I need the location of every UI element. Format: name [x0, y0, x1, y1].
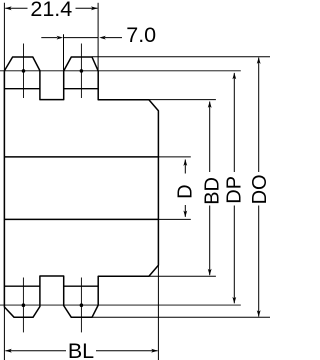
tooth 2 top center dot	[80, 69, 84, 73]
tooth 1 bottom center dot	[22, 303, 26, 307]
left edge extension line	[3, 3, 5, 360]
BD top reference line	[149, 99, 216, 101]
tooth 2 top vertical centerline	[80, 44, 82, 99]
bore bottom line	[4, 218, 158, 220]
rim line bottom right	[64, 285, 98, 287]
DO top reference line	[92, 56, 270, 58]
svg-text:BD: BD	[202, 177, 224, 205]
rim line top left	[4, 88, 40, 90]
svg-text:D: D	[175, 184, 197, 198]
svg-text:21.4: 21.4	[30, 0, 72, 21]
dim BL line right segment with arrow	[96, 350, 158, 352]
tooth 1 bottom vertical centerline	[22, 278, 24, 333]
rim line bottom left	[4, 285, 40, 287]
dim 7.0 left outside arrow	[41, 37, 57, 39]
dim D vertical line top segment with up arrow	[184, 160, 186, 174]
svg-text:BL: BL	[68, 339, 94, 360]
dim BD vertical line bottom segment with down arrow	[209, 206, 211, 276]
DO bottom reference line	[92, 316, 270, 318]
dim 7.0 right outside arrow	[105, 37, 123, 39]
svg-text:DP: DP	[223, 176, 245, 204]
tooth 1 top vertical centerline	[23, 44, 25, 99]
hub right edge extension line	[157, 265, 159, 360]
svg-text:7.0: 7.0	[126, 23, 156, 47]
dim 7.0 line between extensions	[64, 37, 99, 39]
dim D vertical line bottom segment with down arrow	[184, 205, 186, 217]
bore top extension	[158, 156, 190, 158]
top horizontal centerline	[0, 70, 241, 72]
dim 7.0 extension line	[63, 34, 65, 70]
sprocket body outline	[4, 57, 158, 317]
tooth 1 top center dot	[22, 69, 26, 73]
dim DP vertical line top segment with up arrow	[233, 73, 235, 172]
dim 21.4 line right segment with arrow	[76, 7, 98, 9]
dim 21.4 line left segment with arrow	[5, 7, 27, 9]
bore bottom extension	[158, 218, 190, 220]
dim DO vertical line top segment with up arrow	[258, 58, 260, 173]
svg-text:DO: DO	[249, 174, 270, 204]
dim BD vertical line top segment with up arrow	[209, 102, 211, 173]
dim BL line left segment with arrow	[5, 350, 66, 352]
tooth 2 bottom vertical centerline	[80, 278, 82, 333]
right plate edge extension line	[97, 3, 99, 71]
tooth 2 bottom center dot	[80, 303, 84, 307]
dim DP vertical line bottom segment with down arrow	[233, 206, 235, 304]
bore top line	[4, 156, 158, 158]
BD bottom reference line	[149, 275, 216, 277]
rim line top right	[64, 88, 98, 90]
dim DO vertical line bottom segment with down arrow	[258, 206, 260, 317]
bottom horizontal centerline	[0, 304, 241, 306]
